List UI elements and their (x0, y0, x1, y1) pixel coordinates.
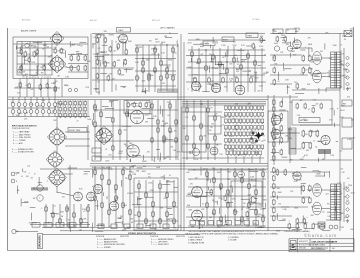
label box D2 (286, 29, 296, 34)
tube V19 small (238, 171, 245, 178)
wire rotary feed 2 (65, 138, 90, 140)
svg-text:S: S (291, 244, 295, 250)
right col labels (annotation smudges) (279, 97, 356, 162)
svg-text:12K: 12K (225, 150, 227, 152)
terminal AC 2 (334, 225, 338, 229)
resistor R40 (260, 37, 263, 44)
svg-text:.005: .005 (302, 119, 306, 121)
svg-text:12K: 12K (210, 127, 213, 129)
speaker note box (rotated text) (38, 234, 43, 249)
wire jack link2 19 (18, 113, 20, 116)
pushbutton switch row 1 y=106 (225, 106, 264, 111)
junction c3 (247, 74, 248, 75)
heater tap boxes row K (190, 221, 258, 225)
terminal mic jack 2 (37, 195, 43, 201)
tube V3 tone amp (191, 81, 200, 90)
wire k row 3 (188, 186, 266, 188)
svg-text:47: 47 (237, 64, 239, 66)
svg-text:AM-FM TUNER: AM-FM TUNER (21, 30, 37, 33)
svg-text:750: 750 (339, 150, 342, 152)
resistor right col2 R145 (273, 167, 276, 174)
title block outer (289, 239, 354, 252)
indicator blob 1 (252, 132, 255, 135)
indicator blob 3 (255, 140, 258, 143)
output R wire jogs (277, 168, 338, 231)
capacitor k C104 (234, 209, 237, 216)
capacitor k C107 (255, 209, 258, 216)
svg-text:750: 750 (30, 104, 33, 106)
svg-text:20B: 20B (303, 248, 306, 250)
wire jack drop1 3 (24, 97, 26, 103)
capacitor phono C90 (138, 211, 141, 218)
wire speaker strip left (343, 48, 345, 90)
tube V2 preamp left (119, 34, 128, 43)
wire tuner drop 3 (33, 79, 35, 98)
capacitor k C102 (220, 216, 223, 223)
wire bottom-left column 4 (66, 204, 68, 227)
resistor tuner Rc (20, 65, 22, 71)
svg-text:8.2K: 8.2K (342, 172, 345, 174)
capacitor tone mid C46 (157, 127, 159, 134)
svg-text:100K: 100K (261, 123, 264, 125)
resistor input grid r2c1 (59, 106, 61, 112)
capacitor C30 (276, 36, 279, 43)
svg-text:.1: .1 (117, 71, 119, 73)
svg-text:POSITION: POSITION (150, 236, 159, 238)
svg-text:470: 470 (235, 211, 238, 213)
wire cb column 3 (108, 166, 110, 227)
resistor cb R102 (108, 179, 111, 186)
AC outlet X b (344, 31, 352, 37)
svg-text:470: 470 (73, 226, 76, 228)
svg-text:.1: .1 (335, 199, 337, 201)
svg-text:33K: 33K (252, 143, 254, 145)
wire tuner inner rail (13, 43, 88, 45)
rotary switch S1 band selector (48, 55, 66, 73)
svg-text:750: 750 (62, 225, 65, 227)
wire k bottom rail (188, 225, 266, 227)
capacitor k C100 (206, 202, 209, 209)
wire tape in drop (98, 38, 100, 95)
svg-text:.047: .047 (112, 79, 116, 81)
svg-text:47: 47 (115, 41, 117, 43)
capacitor F4 (112, 145, 114, 152)
wire tuner inner col 1 (21, 42, 23, 76)
svg-text:.0047: .0047 (340, 110, 345, 112)
tube V21 phase splitter R (293, 172, 301, 180)
capacitor C4 (96, 37, 99, 44)
wire feed y48 (295, 47, 312, 49)
svg-text:470: 470 (147, 152, 150, 154)
resistor tone mid R65 (151, 103, 153, 110)
label box aux right 1 (342, 100, 352, 106)
capacitor k C106 (248, 202, 251, 209)
resistor R54 (296, 83, 299, 90)
bus wire right divider (267, 95, 269, 231)
resistor input grid r3c5 (79, 112, 81, 118)
resistor tone mid R68 (169, 103, 171, 110)
tube V1 FM front end (52, 34, 61, 43)
svg-text:.005: .005 (304, 69, 308, 71)
wire ladder mid 1 (135, 58, 176, 60)
wire bottom-left column 5 (73, 204, 75, 227)
right margin labels top (annotation smudges) (340, 39, 351, 90)
resistor tuner Ra (20, 49, 22, 55)
label box heater 2 (44, 223, 52, 228)
wire k column 1 (206, 168, 208, 226)
svg-text:.047: .047 (352, 137, 356, 139)
resistor bottom-left R95 (80, 218, 83, 225)
resistor cb R105 (129, 174, 132, 181)
svg-text:47: 47 (221, 199, 223, 201)
wire tone column 10 (254, 46, 256, 92)
tuner mid labels (annotation smudges) (57, 49, 65, 55)
pushbutton switch row 4 y=125.5 (225, 126, 264, 131)
resistor phono R111 (145, 192, 148, 199)
resistor dynaural R86 (193, 115, 196, 122)
resistor dynaural R89 (214, 115, 217, 122)
svg-text:4.7K: 4.7K (341, 54, 344, 56)
terminal phono jack 1 (11, 172, 15, 176)
tuner wire jogs (16, 41, 86, 76)
svg-text:.047: .047 (20, 46, 24, 48)
svg-text:39K: 39K (348, 88, 351, 90)
wire feed R y197 (270, 196, 310, 198)
resistor cb R101 (101, 174, 104, 181)
resistor R51 (302, 55, 305, 62)
resistor tone R31 (198, 58, 201, 65)
wire bottom-left rail (30, 224, 90, 226)
svg-text:DYNAURAL: DYNAURAL (158, 90, 168, 93)
terminal input jack row2 1 (11, 110, 15, 114)
resistor R4 (77, 55, 80, 62)
svg-text:56K: 56K (224, 145, 226, 147)
svg-text:©bama.com: ©bama.com (22, 74, 51, 80)
wire k column 5 (234, 168, 236, 226)
svg-text:220K: 220K (228, 117, 231, 119)
terminal input jack L2 (287, 46, 292, 51)
tuner inner box (17, 42, 52, 76)
svg-text:470: 470 (329, 120, 332, 122)
svg-text:47: 47 (234, 219, 236, 221)
bus wire B+ rail (90, 163, 268, 165)
capacitor C5 (104, 61, 107, 68)
svg-text:.02: .02 (216, 84, 219, 86)
rotary switch S3 mode (46, 151, 64, 169)
terminal speaker L C (346, 76, 350, 80)
wire to V13 (57, 192, 74, 196)
svg-text:.047: .047 (193, 170, 196, 172)
phase inverter enclosure box (268, 111, 288, 142)
svg-text:470: 470 (305, 134, 308, 136)
svg-text:.1: .1 (39, 198, 41, 200)
svg-text:.0047: .0047 (344, 217, 349, 219)
resistor k R121 (213, 177, 216, 184)
wire k column 9 (262, 168, 264, 226)
terminal input jack row2 4 (29, 110, 33, 114)
ground speaker R (346, 219, 349, 222)
resistor input grid r3c3 (69, 112, 71, 118)
capacitor C120 filter (296, 223, 299, 230)
wire phono column 3 (152, 180, 154, 228)
dynaural inner box (208, 116, 221, 134)
svg-text:.047: .047 (158, 219, 162, 221)
pushbutton switch row 2 y=112.5 (225, 113, 264, 118)
svg-text:.1: .1 (288, 220, 290, 222)
wire preamp col 3 (111, 40, 113, 92)
title row3 smudge (311, 247, 328, 249)
capacitor dynaural C78 (207, 143, 210, 150)
wire bank drop 1 (227, 156, 229, 163)
svg-text:.0047: .0047 (254, 78, 259, 80)
svg-text:18K: 18K (211, 123, 214, 125)
resistor R140 (288, 223, 291, 230)
svg-text:2.2M: 2.2M (340, 227, 344, 229)
svg-text:2.2M: 2.2M (238, 154, 241, 156)
capacitor cb C84 (122, 202, 125, 209)
resistor R7 (39, 84, 42, 91)
capacitor phono C94 (166, 211, 169, 218)
label box heater 3 (56, 223, 64, 228)
wire rotary feed 1 (65, 131, 90, 133)
bottom-left labels (annotation smudges) (15, 172, 88, 233)
resistor ladder R21 (166, 73, 169, 80)
svg-text:.0047: .0047 (279, 120, 284, 122)
svg-text:.0047: .0047 (247, 103, 251, 105)
svg-text:47: 47 (264, 54, 266, 56)
svg-text:.0047: .0047 (216, 172, 221, 174)
wire ladder mid 2 (135, 70, 176, 72)
wire tone row 2 (188, 61, 265, 63)
terminal speaker L G (346, 82, 350, 86)
wire jack drop1 4 (30, 97, 32, 103)
svg-text:.01: .01 (53, 206, 56, 208)
resistor right col R71 (273, 106, 276, 113)
output tube V23 EL84 right 2 (313, 202, 322, 215)
capacitor right col C63 (280, 137, 283, 144)
wire S2 to S3 (56, 147, 58, 153)
indicator blob 2 (261, 133, 264, 136)
capacitor tone mid C45 (151, 137, 153, 144)
wire ladder column 7 (172, 45, 174, 92)
svg-text:39K: 39K (216, 144, 219, 146)
svg-text:12K: 12K (215, 114, 218, 116)
resistor tone R30 (191, 51, 194, 58)
terminal test point 2 (74, 88, 77, 91)
capacitor C2 (77, 65, 80, 72)
resistor tuner Rb (36, 49, 38, 55)
svg-text:.02: .02 (241, 209, 244, 211)
junction c2 (226, 61, 227, 62)
terminal speaker R C (346, 208, 350, 212)
resistor R80 (302, 130, 305, 138)
wire jack drop1 1 (12, 97, 14, 103)
wire preamp top rail (92, 33, 178, 35)
svg-text:.1: .1 (187, 89, 189, 91)
svg-text:.01: .01 (293, 41, 296, 43)
svg-text:750: 750 (42, 49, 45, 51)
bottom-left wire jogs (18, 168, 90, 232)
wire tone mid row 4 (95, 156, 178, 158)
resistor F1 (112, 117, 114, 124)
resistor R14 (118, 69, 121, 76)
wire tuner drop 6 (54, 79, 56, 98)
svg-text:STEREO SELECTOR SWITCH: STEREO SELECTOR SWITCH (128, 233, 157, 235)
tube V11a dynaural (210, 147, 218, 155)
svg-text:33K: 33K (189, 153, 192, 155)
wire k row 2 (188, 178, 266, 180)
label box heater 1 (32, 223, 40, 228)
label box bass (222, 37, 234, 42)
capacitor C122 (303, 218, 306, 225)
wire k row 1 (188, 169, 266, 171)
capacitor right col C61 (280, 113, 283, 120)
svg-text:47: 47 (92, 186, 94, 188)
resistor R53 (302, 67, 305, 74)
tube V11 indicator (192, 148, 199, 155)
svg-text:AM OSC: AM OSC (90, 19, 98, 22)
below tuner labels (annotation smudges) (15, 81, 90, 95)
resistor K3 (246, 211, 249, 218)
border frame right (353, 27, 355, 251)
svg-text:47: 47 (249, 71, 251, 73)
wire ladder column 6 (166, 45, 168, 92)
svg-text:.005: .005 (186, 172, 190, 174)
svg-text:.01: .01 (344, 197, 347, 199)
bus wire B+ rail 3 (40, 168, 268, 170)
svg-text:.01: .01 (315, 146, 318, 148)
svg-text:.005: .005 (30, 89, 33, 91)
terminal phono jack 2 (11, 179, 15, 183)
svg-text:.01: .01 (97, 82, 100, 84)
svg-text:39K: 39K (235, 129, 237, 131)
resistor R141 (312, 223, 315, 230)
svg-text:POSITION FUNCTION: POSITION FUNCTION (12, 128, 30, 130)
capacitor C43 (139, 102, 141, 108)
svg-text:.0047: .0047 (273, 43, 278, 45)
svg-text:SPEAKERS: SPEAKERS (39, 235, 42, 248)
svg-text:.005: .005 (306, 150, 310, 152)
wire top right feed (270, 33, 352, 35)
svg-text:.02: .02 (322, 212, 325, 214)
wire tone column 8 (240, 48, 242, 92)
wire tone column 3 (205, 50, 207, 92)
wire tuner row 2 (68, 63, 88, 65)
terminal input jack row2 8 (53, 110, 57, 114)
terminal input jack row2 3 (23, 110, 27, 114)
wire feed y65 (270, 64, 310, 66)
resistor input grid r3c4 (74, 112, 76, 118)
wire k column 4 (227, 168, 229, 226)
svg-text:.02: .02 (211, 81, 214, 83)
wire dynaural column 5 (214, 100, 216, 160)
center-bottom labels (annotation smudges) (92, 166, 182, 231)
resistor right col R72 (273, 113, 276, 120)
resistor R5 (84, 55, 87, 62)
capacitor tone C21 (208, 77, 211, 84)
svg-text:33K: 33K (258, 140, 260, 142)
svg-text:.1: .1 (57, 113, 59, 115)
resistor R9 (104, 37, 107, 44)
resistor k R123 (227, 189, 230, 196)
svg-text:47: 47 (169, 33, 171, 35)
driver right labels (annotation smudges) (186, 168, 267, 229)
AC outlet X a (344, 31, 352, 37)
wire cb column 4 (115, 166, 117, 227)
svg-text:.01: .01 (105, 149, 108, 151)
svg-text:6 —— RUMBLE FILTER: 6 —— RUMBLE FILTER (12, 149, 33, 151)
wire feed R y187 (270, 186, 302, 188)
svg-text:2.2M: 2.2M (161, 83, 165, 85)
svg-text:.005: .005 (318, 172, 322, 174)
capacitor C31 (309, 67, 312, 74)
wire output row (292, 89, 340, 91)
svg-text:.005: .005 (98, 60, 102, 62)
wire bank drop 5 (259, 156, 261, 163)
preamp left labels (annotation smudges) (92, 37, 128, 56)
svg-text:470: 470 (236, 71, 239, 73)
wire jack drop1 2 (18, 97, 20, 103)
svg-text:FUNCTION: FUNCTION (176, 236, 185, 238)
wire phono column 4 (159, 180, 161, 228)
wire L top row (270, 171, 330, 173)
capacitor k C108 (262, 216, 265, 223)
wire feedback left drop (325, 88, 327, 92)
svg-text:2.2M: 2.2M (152, 54, 156, 56)
bus wire channel divider A (180, 34, 182, 231)
capacitor phono C91 (145, 218, 148, 225)
svg-text:©bama.com: ©bama.com (304, 232, 337, 238)
tile K extra labels (annotation smudges) (189, 169, 263, 221)
border frame bottom (8, 250, 354, 252)
wire tuner drop 1 (19, 79, 21, 98)
resistor phono R110 (138, 183, 141, 190)
resistor tuner Rd (60, 48, 62, 54)
rotary switch S5 speaker selector (48, 168, 67, 187)
svg-text:.01: .01 (169, 175, 172, 177)
svg-text:8.2K: 8.2K (346, 187, 349, 189)
wire dynaural row 3 (182, 143, 222, 145)
capacitor k C103 (227, 202, 230, 209)
resistor R1 (24, 51, 27, 58)
resistor R82 (302, 142, 305, 150)
wire preamp row (100, 54, 160, 56)
resistor ladder R17 (142, 60, 145, 67)
svg-text:47: 47 (202, 204, 204, 206)
bus wire input rail (8, 96, 298, 98)
label box aux right 3 (342, 138, 352, 149)
svg-text:.005: .005 (350, 28, 354, 30)
resistor H3 (312, 107, 314, 114)
wire right col spine (273, 95, 275, 165)
title block rule 3 (289, 248, 325, 250)
svg-text:.047: .047 (315, 103, 319, 105)
terminal speaker R 4 (346, 201, 350, 205)
wire tone column 9 (247, 50, 249, 92)
wire tone mid column 2 (157, 100, 159, 160)
wire cb column 2 (101, 166, 103, 227)
resistor bottom-left R90 (45, 206, 48, 213)
svg-text:750: 750 (224, 135, 226, 137)
resistor tone R34 (219, 61, 222, 68)
terminal test point (68, 88, 71, 91)
svg-text:.005: .005 (146, 102, 150, 104)
svg-text:5. VOLUME: 5. VOLUME (228, 240, 237, 242)
resistor phono R114 (166, 192, 169, 199)
svg-text:220K: 220K (236, 125, 239, 127)
svg-text:.047: .047 (325, 194, 329, 196)
svg-text:TP-1 ADJ: TP-1 ADJ (252, 18, 260, 21)
